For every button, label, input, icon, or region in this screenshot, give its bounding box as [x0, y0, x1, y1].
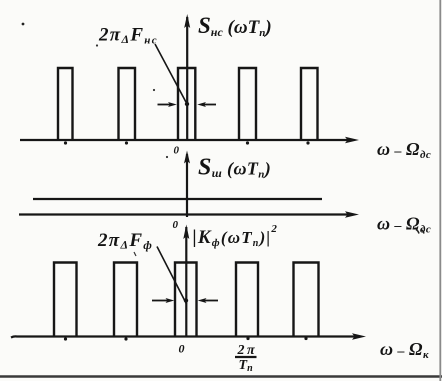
axis Y of top plot: [186, 17, 188, 140]
bottom frame line: [0, 375, 442, 377]
width measure arrow left (bottom plot): [152, 300, 168, 302]
speck left of middle Y axis: [166, 156, 168, 158]
pulse P3 central bottom plot: [175, 263, 197, 338]
axis Y of bottom plot: [185, 227, 187, 337]
axis X of top plot: [20, 139, 350, 141]
dot on central pulse (bottom): [184, 298, 188, 302]
dot on central pulse: [185, 102, 189, 106]
arrowhead of bottom X axis: [352, 333, 366, 339]
pulse P2 top plot: [119, 68, 136, 140]
tick dots below bottom axis: [64, 337, 67, 340]
axis X of middle plot: [19, 213, 350, 215]
arrowhead of top X axis: [345, 137, 359, 143]
arrowhead of bottom Y axis: [183, 225, 189, 240]
speck above bottom P2: [134, 252, 136, 256]
tick dots below top axis: [64, 141, 67, 144]
svg-text:2π: 2π: [237, 343, 258, 358]
pulse P4 top plot: [239, 68, 256, 140]
width measure arrow right (bottom plot): [202, 300, 218, 302]
leader line to central pulse (bottom): [157, 247, 187, 305]
width measure arrow right (top plot): [202, 104, 216, 106]
flat noise spectrum line: [33, 198, 322, 200]
pulse P5 top plot: [301, 68, 318, 140]
arrowhead of middle Y axis: [184, 151, 190, 164]
arrowhead of top Y axis: [184, 14, 190, 28]
svg-text:0: 0: [174, 145, 180, 157]
pulse P1 top plot: [58, 68, 73, 140]
pulse P3 central top plot: [178, 68, 195, 140]
width measure arrow left (top plot): [158, 104, 172, 106]
axis X of bottom plot: [11, 336, 357, 337]
arrowhead of middle X axis: [345, 211, 359, 217]
pulse P5 bottom plot: [294, 263, 319, 338]
right frame line: [439, 0, 441, 381]
pulse P2 bottom plot: [114, 263, 137, 338]
svg-text:0: 0: [173, 219, 179, 231]
axis Y of middle plot: [186, 154, 188, 217]
speck near central pulse: [153, 89, 155, 91]
pulse P4 bottom plot: [236, 263, 258, 338]
speck top-left: [22, 23, 25, 26]
svg-text:0: 0: [179, 342, 185, 356]
speck subscript descender middle label: [416, 230, 424, 234]
pulse P1 bottom plot: [54, 263, 77, 338]
leader line to central pulse: [155, 44, 187, 104]
speck under annotation digit: [96, 44, 98, 46]
